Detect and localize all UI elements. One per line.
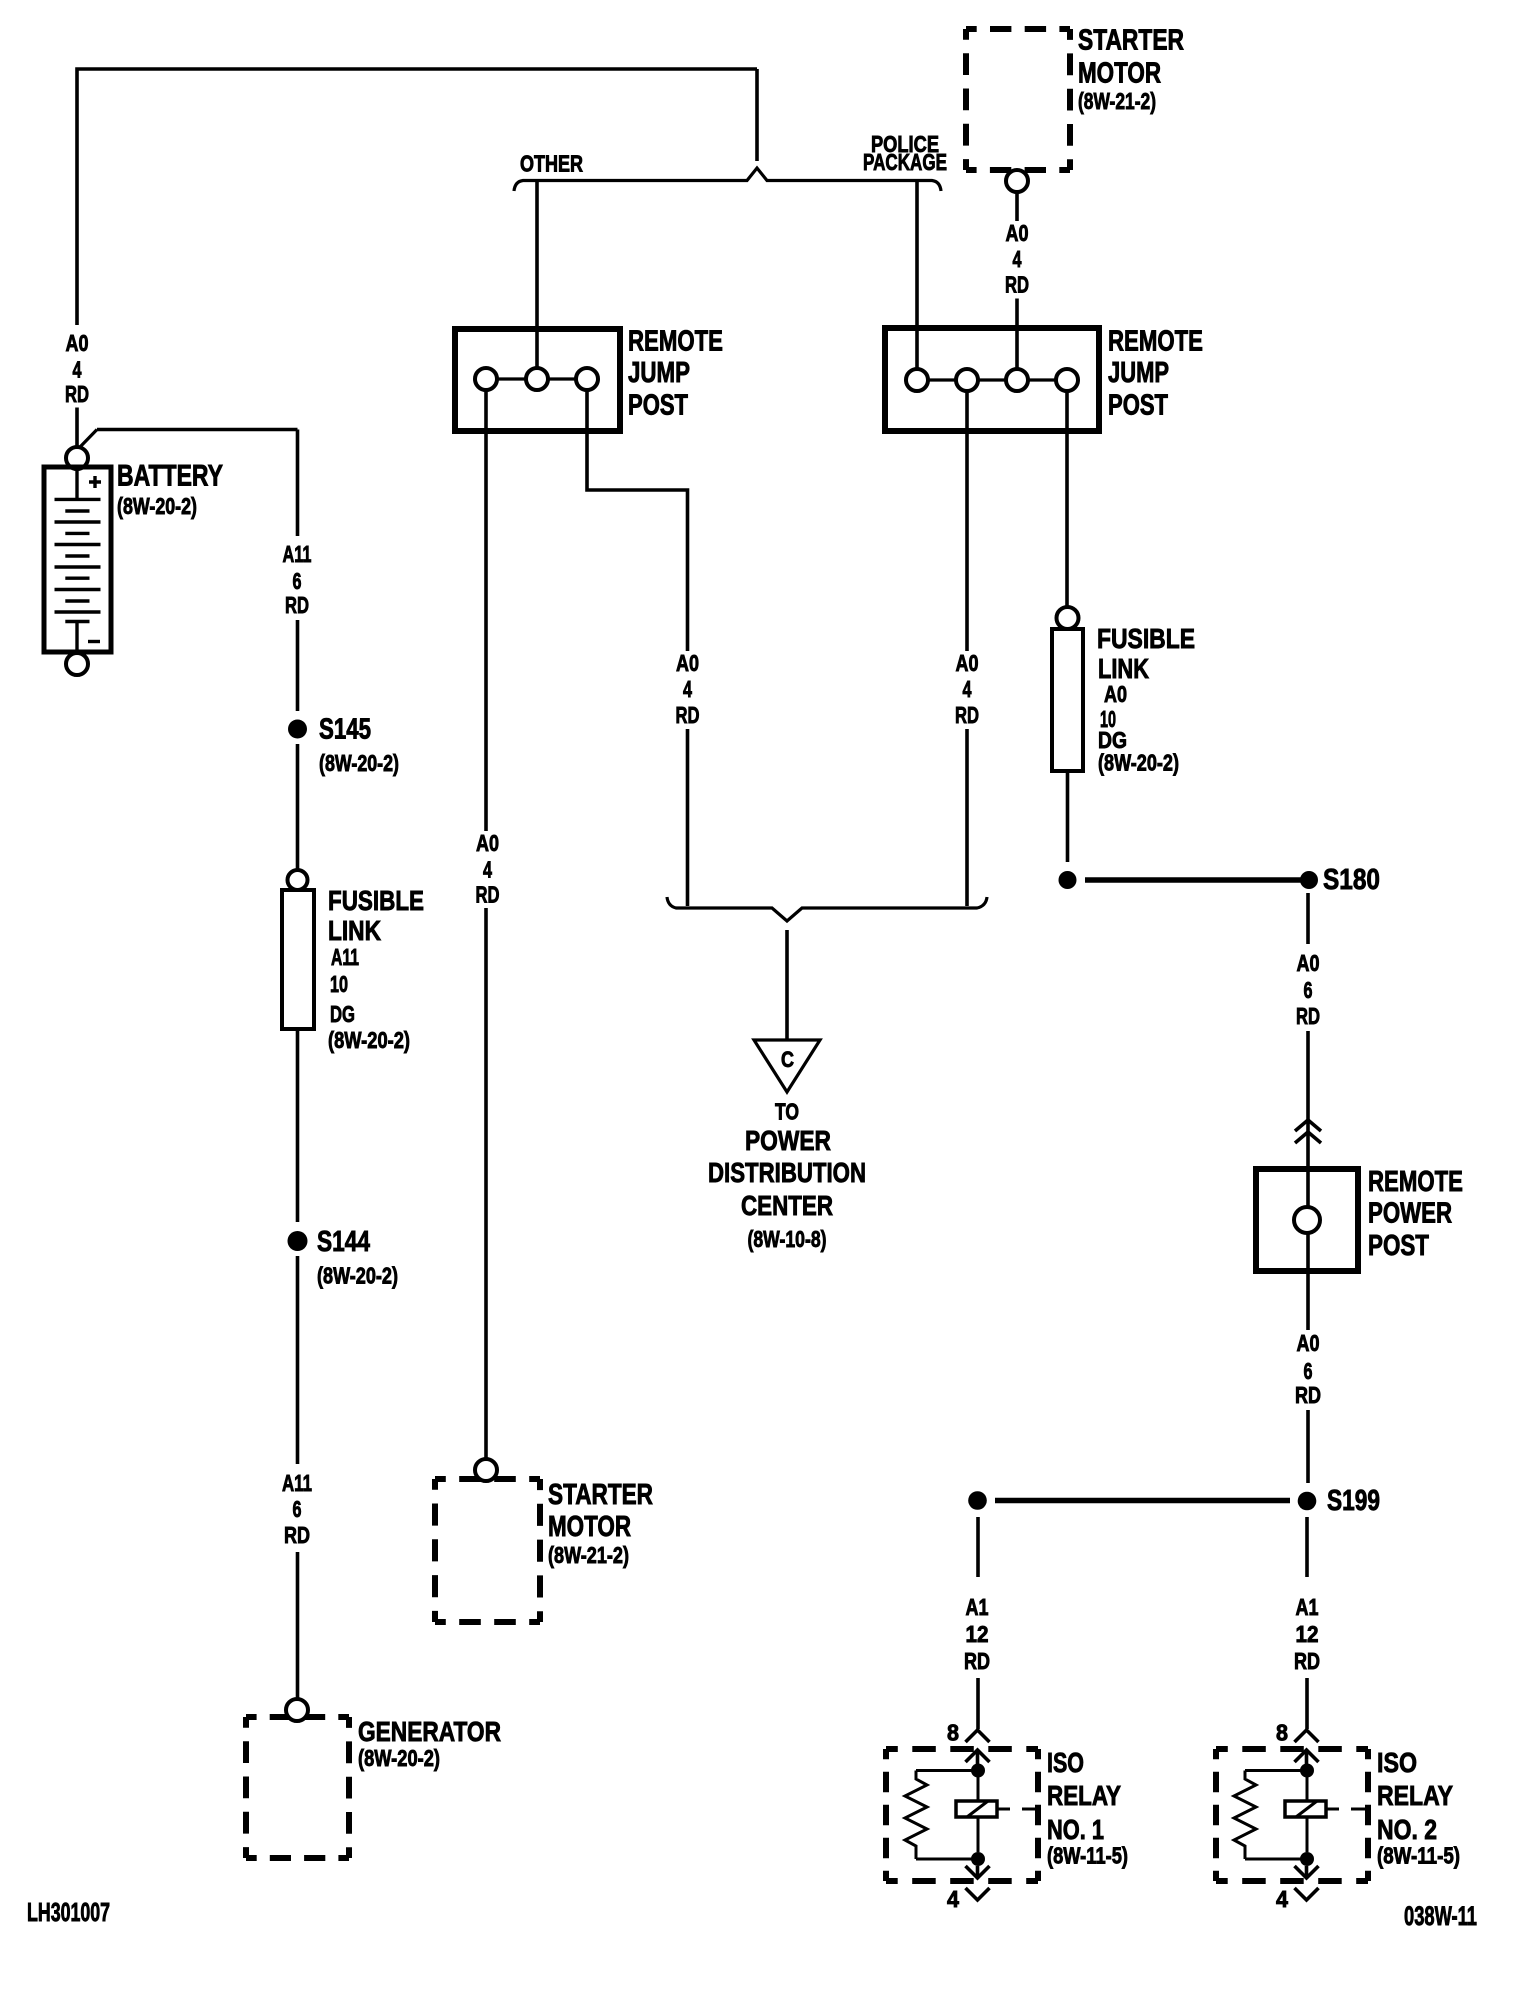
wire remote power post down	[1306, 1271, 1310, 1330]
wire right relay feed upper	[1305, 1517, 1309, 1577]
wire label to left starter motor	[484, 908, 488, 1459]
right jump post terminal 4	[1056, 369, 1078, 391]
svg-text:A0: A0	[476, 830, 499, 856]
remote power post box	[1256, 1169, 1358, 1271]
svg-text:4: 4	[1013, 246, 1022, 272]
right jump post terminal 2	[956, 369, 978, 391]
right jump post terminal 1	[906, 369, 928, 391]
svg-text:BATTERY: BATTERY	[117, 460, 223, 493]
right jump post terminal 3	[1006, 369, 1028, 391]
battery terminal circle top	[66, 447, 88, 469]
svg-text:LINK: LINK	[1098, 653, 1149, 684]
wire label to generator	[296, 1552, 300, 1699]
svg-text:(8W-21-2): (8W-21-2)	[548, 1542, 629, 1568]
wire label A0 4 RD (police starter leg)	[1005, 220, 1029, 298]
wire A0 battery feed: top-left vertical and top horizontal run	[77, 69, 757, 325]
svg-text:(8W-11-5): (8W-11-5)	[1047, 1843, 1128, 1869]
svg-text:6: 6	[293, 1496, 302, 1522]
svg-text:GENERATOR: GENERATOR	[358, 1716, 501, 1747]
svg-text:NO. 2: NO. 2	[1377, 1814, 1437, 1845]
svg-text:REMOTE: REMOTE	[1368, 1166, 1463, 1198]
splice S144	[288, 1231, 308, 1251]
left remote jump post internal bus	[486, 377, 587, 380]
left starter motor terminal	[475, 1459, 497, 1481]
svg-text:(8W-11-5): (8W-11-5)	[1377, 1843, 1460, 1869]
wire inside remote power post	[1306, 1169, 1310, 1271]
wire S145 to fusible link	[296, 744, 300, 870]
svg-text:C: C	[781, 1047, 794, 1072]
wire left jump post t1 down (upper)	[484, 390, 488, 831]
wire label A0 6 RD (S199 feed)	[1295, 1330, 1321, 1408]
wire left relay feed upper	[976, 1517, 980, 1577]
svg-text:6: 6	[1304, 977, 1313, 1003]
inline break chevrons	[1295, 1120, 1321, 1143]
wire A11 vertical upper segment	[296, 430, 300, 537]
svg-text:RD: RD	[1296, 1003, 1320, 1029]
fusible link A0 terminal circle	[1057, 607, 1079, 629]
left jump post terminal 3	[576, 368, 598, 390]
svg-text:12: 12	[1296, 1621, 1319, 1647]
pin 8 connector chevrons relay 2	[1295, 1730, 1319, 1762]
relay 2 resistor	[1234, 1771, 1256, 1860]
svg-text:(8W-20-2): (8W-20-2)	[358, 1745, 440, 1771]
generator terminal circle	[286, 1699, 308, 1721]
svg-text:DG: DG	[330, 1001, 355, 1027]
svg-text:(8W-20-2): (8W-20-2)	[1098, 750, 1179, 776]
starter motor (police) dashed box	[966, 29, 1070, 170]
svg-text:OTHER: OTHER	[520, 151, 583, 177]
svg-text:REMOTE: REMOTE	[628, 326, 723, 358]
wire label A0 4 RD (left PDC leg)	[676, 650, 700, 728]
svg-text:POWER: POWER	[745, 1125, 831, 1156]
relay 2 coil feed wire	[1306, 1770, 1309, 1801]
svg-text:A1: A1	[966, 1594, 989, 1620]
svg-text:(8W-20-2): (8W-20-2)	[117, 493, 197, 519]
svg-text:RD: RD	[65, 381, 89, 407]
pin 8 connector chevrons relay 1	[966, 1730, 990, 1762]
svg-text:A0: A0	[676, 650, 699, 676]
svg-text:FUSIBLE: FUSIBLE	[1097, 623, 1195, 654]
svg-text:4: 4	[947, 1886, 959, 1912]
svg-text:10: 10	[330, 971, 348, 997]
wire label A1 12 RD (relay 2)	[1294, 1594, 1320, 1674]
starter motor (police) terminal	[1006, 170, 1028, 192]
svg-text:12: 12	[966, 1621, 989, 1647]
relay 1 top internal wire	[916, 1769, 978, 1772]
wire label down to collector brace right	[965, 729, 969, 906]
svg-text:FUSIBLE: FUSIBLE	[328, 885, 424, 916]
wire POLICE PACKAGE branch down to right remote jump post	[915, 182, 919, 370]
wire brace stem from top run	[755, 69, 759, 161]
pin 4 connector chevrons relay 1	[966, 1866, 990, 1900]
relay 1 coil stub	[997, 1808, 1038, 1811]
wire label down to collector brace left	[686, 729, 690, 906]
left jump post terminal 1	[475, 368, 497, 390]
svg-text:RD: RD	[1295, 1382, 1321, 1408]
svg-text:4: 4	[683, 676, 692, 702]
battery B1	[44, 467, 111, 652]
wire S144 down	[296, 1256, 300, 1464]
relay 1 coil	[956, 1801, 997, 1817]
svg-text:ISO: ISO	[1047, 1747, 1084, 1778]
svg-text:DISTRIBUTION: DISTRIBUTION	[708, 1157, 866, 1188]
svg-text:POST: POST	[628, 390, 688, 422]
wire pin 8 stub into relay 1	[976, 1750, 980, 1764]
splice S199	[1298, 1492, 1317, 1511]
svg-text:4: 4	[483, 857, 492, 883]
svg-text:RELAY: RELAY	[1377, 1780, 1453, 1811]
svg-text:(8W-20-2): (8W-20-2)	[317, 1263, 398, 1289]
remote power post terminal	[1294, 1207, 1320, 1233]
svg-text:PACKAGE: PACKAGE	[863, 149, 947, 175]
wire relay 1 pin 4	[976, 1866, 980, 1877]
svg-text:JUMP: JUMP	[628, 357, 690, 389]
svg-text:STARTER: STARTER	[1078, 25, 1184, 57]
svg-text:4: 4	[1276, 1886, 1288, 1912]
wire fusible link to splice S144	[296, 1029, 300, 1222]
svg-text:(8W-20-2): (8W-20-2)	[328, 1027, 410, 1053]
wire left jump post t3 down and over	[587, 390, 688, 651]
svg-text:4: 4	[963, 676, 972, 702]
svg-text:RD: RD	[285, 592, 309, 618]
svg-text:8: 8	[1276, 1720, 1288, 1746]
wire label A0 6 RD (power post feed)	[1296, 950, 1320, 1029]
svg-text:POST: POST	[1368, 1230, 1429, 1262]
svg-text:A0: A0	[1297, 950, 1320, 976]
svg-text:A11: A11	[283, 541, 312, 567]
wire label A0 4 RD (battery feed)	[65, 330, 89, 407]
svg-text:A11: A11	[331, 944, 359, 970]
fusible link A0 body	[1052, 629, 1083, 771]
splice S180	[1300, 871, 1318, 889]
junction dot left of S199	[968, 1491, 987, 1510]
relay 1 coil feed wire	[977, 1770, 980, 1801]
relay 2 bottom junction dot	[1300, 1852, 1314, 1866]
wire pin 8 stub into relay 2	[1305, 1750, 1309, 1764]
svg-text:LH301007: LH301007	[27, 1897, 110, 1927]
wire starter motor to label	[1015, 192, 1019, 221]
wire label A11 6 RD	[283, 541, 312, 618]
right remote jump post internal bus	[917, 378, 1067, 381]
wire relay 2 pin 4	[1305, 1866, 1309, 1877]
relay 1 bottom internal wire	[916, 1858, 978, 1861]
wire A11 label to splice S145	[296, 620, 300, 711]
wire label to right jump post t3	[1015, 299, 1019, 372]
svg-text:(8W-10-8): (8W-10-8)	[748, 1226, 827, 1252]
svg-text:S144: S144	[317, 1226, 370, 1258]
svg-text:A0: A0	[956, 650, 979, 676]
wire junction to splice S180	[1085, 877, 1301, 883]
svg-text:CENTER: CENTER	[741, 1190, 833, 1221]
svg-text:REMOTE: REMOTE	[1108, 326, 1203, 358]
wire from label down to battery positive terminal	[75, 408, 79, 448]
svg-text:RD: RD	[284, 1522, 310, 1548]
ISO relay no.1 dashed box	[886, 1749, 1038, 1881]
svg-text:STARTER: STARTER	[548, 1479, 653, 1511]
splice S145	[288, 720, 307, 739]
junction dot left of S180	[1059, 871, 1077, 889]
connector C triangle	[754, 1040, 820, 1092]
svg-text:A11: A11	[282, 1470, 312, 1496]
wire OTHER branch down to left remote jump post	[535, 182, 539, 368]
relay 1 coil return wire	[977, 1817, 980, 1852]
svg-text:A1: A1	[1296, 1594, 1319, 1620]
wire S180 down (upper)	[1306, 893, 1310, 944]
svg-text:RD: RD	[955, 702, 979, 728]
wire label A0 4 RD (starter leg)	[476, 830, 500, 908]
relay 1 top junction dot	[971, 1764, 985, 1778]
svg-text:RD: RD	[476, 882, 500, 908]
svg-text:038W-11: 038W-11	[1404, 1901, 1477, 1931]
relay 2 coil	[1285, 1801, 1326, 1817]
svg-text:RELAY: RELAY	[1047, 1780, 1121, 1811]
svg-text:A0: A0	[1006, 220, 1029, 246]
svg-text:6: 6	[293, 568, 302, 594]
wire label to remote power post	[1306, 1031, 1310, 1169]
svg-text:(8W-21-2): (8W-21-2)	[1078, 88, 1156, 114]
fusible link A11 terminal circle	[288, 870, 308, 890]
wire label to splice S199	[1306, 1410, 1310, 1483]
svg-text:POWER: POWER	[1368, 1198, 1452, 1230]
svg-text:JUMP: JUMP	[1108, 357, 1169, 389]
wire fusible link to junction	[1066, 771, 1070, 862]
relay 2 bottom internal wire	[1245, 1858, 1307, 1861]
relay 1 bottom junction dot	[971, 1852, 985, 1866]
wire right jump post t4 down to fusible link	[1065, 391, 1069, 608]
svg-text:ISO: ISO	[1377, 1747, 1417, 1778]
svg-text:S180: S180	[1323, 864, 1380, 896]
svg-text:RD: RD	[1005, 272, 1029, 298]
fusible link A11 body	[282, 890, 314, 1029]
wire label A1 12 RD (relay 1)	[964, 1594, 990, 1674]
wire label A0 4 RD (right PDC leg)	[955, 650, 979, 728]
svg-text:RD: RD	[676, 702, 700, 728]
svg-text:NO. 1: NO. 1	[1047, 1814, 1104, 1845]
pin 4 connector chevrons relay 2	[1295, 1866, 1319, 1900]
svg-text:RD: RD	[1294, 1648, 1320, 1674]
generator dashed box	[246, 1717, 349, 1858]
wire label to relay 1 pin 8	[976, 1678, 980, 1729]
svg-text:TO: TO	[775, 1099, 799, 1125]
ISO relay no.2 dashed box	[1216, 1749, 1368, 1881]
relay 2 coil return wire	[1306, 1817, 1309, 1852]
wire battery top horizontal to A11 drop	[97, 428, 298, 432]
left remote jump post box	[455, 329, 620, 431]
svg-text:(8W-20-2): (8W-20-2)	[319, 750, 399, 776]
relay 2 top junction dot	[1300, 1764, 1314, 1778]
svg-text:MOTOR: MOTOR	[548, 1511, 631, 1543]
collector brace to PDC	[667, 897, 987, 921]
svg-text:8: 8	[947, 1720, 959, 1746]
left starter motor dashed box	[435, 1479, 540, 1622]
svg-text:POST: POST	[1108, 390, 1168, 422]
splitter brace OTHER / POLICE PACKAGE	[514, 168, 941, 191]
left jump post terminal 2	[526, 368, 548, 390]
relay 2 coil stub	[1326, 1808, 1367, 1811]
wire label A11 6 RD (generator leg)	[282, 1470, 312, 1548]
svg-text:A0: A0	[1297, 1330, 1320, 1356]
wire right jump post t2 down (upper)	[965, 391, 969, 651]
wire label to relay 2 pin 8	[1305, 1678, 1309, 1729]
svg-text:LINK: LINK	[328, 915, 381, 946]
wire S199 bus to left branch	[995, 1498, 1290, 1504]
right remote jump post box	[885, 328, 1099, 431]
relay 2 top internal wire	[1245, 1769, 1307, 1772]
battery terminal circle bottom	[66, 653, 88, 675]
svg-text:MOTOR: MOTOR	[1078, 58, 1161, 90]
relay 1 resistor	[905, 1771, 927, 1860]
svg-text:RD: RD	[964, 1648, 990, 1674]
svg-text:A0: A0	[66, 330, 89, 356]
wire battery positive jumper diagonal	[80, 430, 97, 448]
svg-text:S199: S199	[1327, 1485, 1380, 1517]
svg-text:4: 4	[73, 357, 82, 383]
svg-text:A0: A0	[1104, 681, 1127, 707]
wire brace to connector C	[785, 930, 789, 1040]
svg-text:S145: S145	[319, 714, 371, 746]
svg-text:6: 6	[1304, 1358, 1313, 1384]
